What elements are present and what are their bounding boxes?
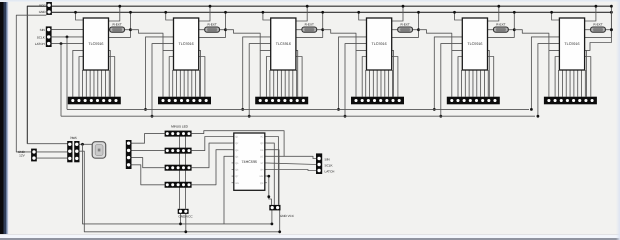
LED connector J4 8-pin header	[351, 97, 404, 105]
wire LATCH out to header	[265, 170, 317, 171]
wire regulator output node	[80, 143, 93, 145]
wire output pins U2 to LED header J2	[172, 70, 174, 97]
wire SCLK distribution bus	[67, 108, 529, 110]
wire LATCH riser to U4	[345, 44, 367, 117]
wire VDD drop from GND/VCC bus to U4	[359, 12, 367, 20]
wire U6 left pin to header pin 1	[549, 50, 560, 96]
wire VDD drop from GND/VCC bus to U1	[76, 12, 84, 20]
svg-text:R-EXT: R-EXT	[593, 22, 602, 26]
wire U1 right pin down to header	[109, 50, 111, 96]
wire bus1 drop to U2 top-right pin	[199, 6, 210, 21]
wire 7805 output to regulator pad	[27, 143, 70, 145]
LED connector J5 8-pin header	[447, 97, 500, 105]
svg-text:GND/VCC: GND/VCC	[178, 215, 193, 219]
wire LATCH riser to U3	[249, 44, 271, 117]
wire U6 right pin down to header	[585, 50, 587, 96]
svg-text:12V: 12V	[19, 154, 25, 158]
wire SIN from input header to U1	[52, 29, 84, 31]
wire LED rows GND drop to rail	[185, 214, 187, 232]
wire GND rail down to bottom rail	[80, 151, 280, 232]
op-amp U2 TLC5916 LED driver IC	[174, 18, 199, 70]
wire LED rows VCC drop to rail	[180, 214, 182, 224]
wire VDD drop from GND/VCC bus to U6	[552, 12, 560, 20]
wire U2 right pin 2 down to header	[199, 57, 205, 97]
wire LED row1 loop to shift register area	[192, 131, 317, 159]
node R-EXT 5 junction	[488, 12, 515, 37]
wire U5 right pin down to header	[488, 50, 490, 96]
svg-text:GND: GND	[39, 10, 47, 14]
wire SCLK from input header to U1	[52, 36, 84, 38]
svg-text:TLC5916: TLC5916	[564, 42, 579, 46]
wire U5 right pin 2 down to header	[488, 57, 494, 97]
wire 74HC595 pin3 to GND/VCC header pin2	[265, 150, 279, 205]
connector LED row 1 5-pin header	[165, 131, 192, 137]
wire LED row4 to 74HC595 pin3	[192, 150, 234, 185]
node R-EXT 4 junction	[392, 12, 419, 37]
node R-EXT 6 junction	[585, 12, 612, 37]
connector J11 output SIN/SCLK/LATCH header	[316, 153, 322, 174]
resistor R6 R-EXT	[585, 22, 612, 32]
svg-text:SCLK: SCLK	[37, 35, 46, 39]
wire LATCH riser to U6	[538, 44, 560, 117]
connector LED row 3 5-pin header	[165, 165, 192, 171]
wire U6 right pin 2 down to header	[585, 57, 591, 97]
connector J9 GND/12V 2-pin header	[31, 149, 37, 162]
svg-text:QS: QS	[260, 182, 264, 185]
wire SOUT U1 to SIN U2 daisy chain	[131, 30, 164, 51]
wire LED row3 to 74HC595 pin2	[192, 143, 234, 168]
wire SCLK riser to U4	[339, 37, 367, 110]
wire U1 right pin 2 down to header	[109, 57, 115, 97]
wire SCLK riser to U3	[243, 37, 271, 110]
wire 12V input	[37, 157, 67, 159]
wire SOUT U5 to SIN U6 daisy chain	[514, 30, 549, 51]
svg-text:R-EXT: R-EXT	[112, 22, 121, 26]
node R-EXT 1 junction	[109, 12, 131, 37]
wire U6 left pin to header pin 2	[555, 57, 559, 97]
svg-text:GN: GN	[235, 182, 239, 185]
svg-text:SIN: SIN	[325, 157, 330, 161]
wire GND/VCC header2 pin1 to rail	[271, 210, 273, 224]
wire SCLK out to header	[265, 163, 317, 165]
LED connector J3 8-pin header	[255, 97, 308, 105]
wire output pins U5 to LED header J5	[461, 70, 463, 97]
svg-text:GND VCC: GND VCC	[280, 214, 295, 218]
wire U4 right pin 2 down to header	[392, 57, 398, 97]
connector GND VCC header 2	[269, 205, 280, 211]
svg-text:VCC: VCC	[39, 3, 46, 7]
op-amp U7 74HC595 shift register	[232, 133, 267, 190]
wire U2 left pin to header pin 1	[163, 50, 174, 96]
wire LATCH riser to U2	[152, 44, 174, 117]
wire SCLK riser to U2	[146, 37, 174, 110]
resistor R5 R-EXT	[488, 22, 515, 32]
wire GND left-side vertical from top header down to bottom GND header	[16, 15, 46, 152]
wire 74HC595 right pin1 to GND/VCC header	[265, 137, 279, 205]
wire 74HC595 left pin to bottom rail	[224, 156, 234, 224]
wire U3 left pin to header pin 2	[266, 57, 270, 97]
wire SCLK riser to U6	[531, 37, 559, 110]
wire VCC from 7805 output up the left side to top bus	[27, 6, 611, 144]
wire U4 right pin down to header	[392, 50, 394, 96]
svg-text:R-EXT: R-EXT	[400, 22, 409, 26]
connector 7805 header A	[67, 141, 72, 162]
svg-text:TLC5916: TLC5916	[372, 42, 387, 46]
wire SOUT U3 to SIN U4 daisy chain	[323, 30, 356, 51]
op-amp U1 TLC5916 LED driver IC	[83, 18, 108, 70]
wire 4-pin header to LED row 1	[132, 134, 165, 144]
resistor R4 R-EXT	[392, 22, 419, 32]
op-amp U4 TLC5916 LED driver IC	[367, 18, 392, 70]
svg-text:SCLK: SCLK	[325, 163, 334, 167]
wire bus1 drop to U4 top-right pin	[392, 6, 403, 21]
wire right-edge VCC drop block6	[586, 6, 611, 50]
wire GND vertical through LED rows	[185, 134, 187, 209]
connector J10 4-pin header	[126, 140, 132, 169]
svg-text:TLC5916: TLC5916	[88, 42, 103, 46]
op-amp U5 TLC5916 LED driver IC	[462, 18, 487, 70]
wire bus1 drop to U6 top-right pin	[585, 6, 596, 21]
wire U4 left pin to header pin 1	[356, 50, 367, 96]
wire 74HC595 pin7 junction	[265, 176, 272, 205]
wire bus1 drop to U1 top-right pin	[109, 6, 120, 21]
wire U2 right pin down to header	[199, 50, 201, 96]
wire LATCH distribution bus	[61, 115, 535, 117]
svg-text:ST: ST	[260, 162, 264, 165]
wire output pins U4 to LED header J4	[365, 70, 367, 97]
wire 4-pin header to LED row 3	[132, 158, 165, 168]
wire U3 left pin to header pin 1	[260, 50, 271, 96]
wire output pins U3 to LED header J3	[269, 70, 271, 97]
svg-text:7805: 7805	[70, 136, 77, 140]
LED connector J2 8-pin header	[158, 97, 211, 105]
svg-text:R-EXT: R-EXT	[305, 22, 314, 26]
wire U1 left pin to header pin 1	[73, 50, 84, 96]
connector J7 VCC/GND 2-pin header	[46, 2, 52, 15]
resistor R2 R-EXT	[199, 22, 226, 32]
svg-text:MINUS LED: MINUS LED	[171, 124, 189, 128]
wire U5 left pin to header pin 1	[452, 50, 463, 96]
wire GND/VCC header2 pin2 to rail	[279, 210, 281, 232]
LED connector J1 8-pin header	[68, 97, 121, 105]
connector 7805 header B	[74, 141, 79, 162]
wire SCLK riser to U5	[434, 37, 462, 110]
wire VCC rail down to bottom rail	[83, 144, 272, 224]
svg-text:TLC5916: TLC5916	[276, 42, 291, 46]
wire LATCH drop to bottom distribution bus	[60, 44, 62, 117]
node R-EXT 2 junction	[199, 12, 226, 37]
op-amp U6 TLC5916 LED driver IC	[559, 18, 584, 70]
svg-text:DS: DS	[260, 149, 264, 152]
connector LED row 2 5-pin header	[165, 148, 192, 154]
wire 74HC595 pin2 to GND/VCC header pin1	[265, 143, 275, 205]
wire output pins U6 to LED header J6	[558, 70, 560, 97]
wire bus1 drop to U3 top-right pin	[296, 6, 307, 21]
wire U3 right pin down to header	[296, 50, 298, 96]
wire U1 left pin to header pin 2	[79, 57, 83, 97]
svg-text:LATCH: LATCH	[35, 42, 45, 46]
wire SOUT U2 to SIN U3 daisy chain	[226, 30, 261, 51]
wire LATCH riser to U5	[441, 44, 463, 117]
svg-text:VC: VC	[260, 136, 264, 139]
connector GND/VCC header 1	[178, 209, 189, 214]
wire SOUT U4 to SIN U5 daisy chain	[419, 30, 452, 51]
svg-text:R-EXT: R-EXT	[207, 22, 216, 26]
op-amp U3 TLC5916 LED driver IC	[271, 18, 296, 70]
wire U5 left pin to header pin 2	[458, 57, 462, 97]
connector J8 SIN/SCLK/LATCH input header	[46, 26, 52, 47]
wire output pins U1 to LED header J1	[82, 70, 84, 97]
svg-text:SIN: SIN	[40, 28, 45, 32]
wire pin4 stub	[265, 155, 284, 157]
resistor R3 R-EXT	[296, 22, 323, 32]
wire 12V header to 7805 header GND	[37, 151, 67, 153]
wire 4-pin header to LED row 2	[132, 149, 165, 151]
svg-text:LATCH: LATCH	[325, 169, 335, 173]
wire LATCH from input header to U1	[52, 43, 84, 45]
svg-text:OE: OE	[260, 155, 264, 158]
connector LED row 4 5-pin header	[165, 182, 192, 188]
svg-text:TLC5916: TLC5916	[179, 42, 194, 46]
LED connector J6 8-pin header	[544, 97, 597, 105]
svg-text:SH: SH	[260, 169, 264, 172]
wire U3 right pin 2 down to header	[296, 57, 302, 97]
wire U2 left pin to header pin 2	[169, 57, 173, 97]
wire VCC vertical through LED rows	[179, 134, 181, 209]
resistor R1 R-EXT	[109, 22, 131, 32]
wire VDD drop from GND/VCC bus to U5	[455, 12, 463, 20]
wire bus1 drop to U5 top-right pin	[488, 6, 499, 21]
svg-text:MR: MR	[260, 175, 264, 178]
wire VDD drop from GND/VCC bus to U2	[166, 12, 174, 20]
wire 4-pin header to LED row 4	[132, 165, 165, 185]
svg-text:74HC595: 74HC595	[242, 160, 258, 164]
svg-text:TLC5916: TLC5916	[467, 42, 482, 46]
transistor Q1 regulator pad	[92, 142, 106, 159]
node R-EXT 3 junction	[296, 12, 323, 37]
wire VDD drop from GND/VCC bus to U3	[263, 12, 271, 20]
wire SCLK drop to bottom distribution bus	[66, 37, 68, 110]
wire LED row2 to 74HC595 pin1	[192, 137, 234, 151]
wire GND top bus	[52, 11, 612, 13]
svg-text:R-EXT: R-EXT	[496, 22, 505, 26]
wire U4 left pin to header pin 2	[362, 57, 366, 97]
